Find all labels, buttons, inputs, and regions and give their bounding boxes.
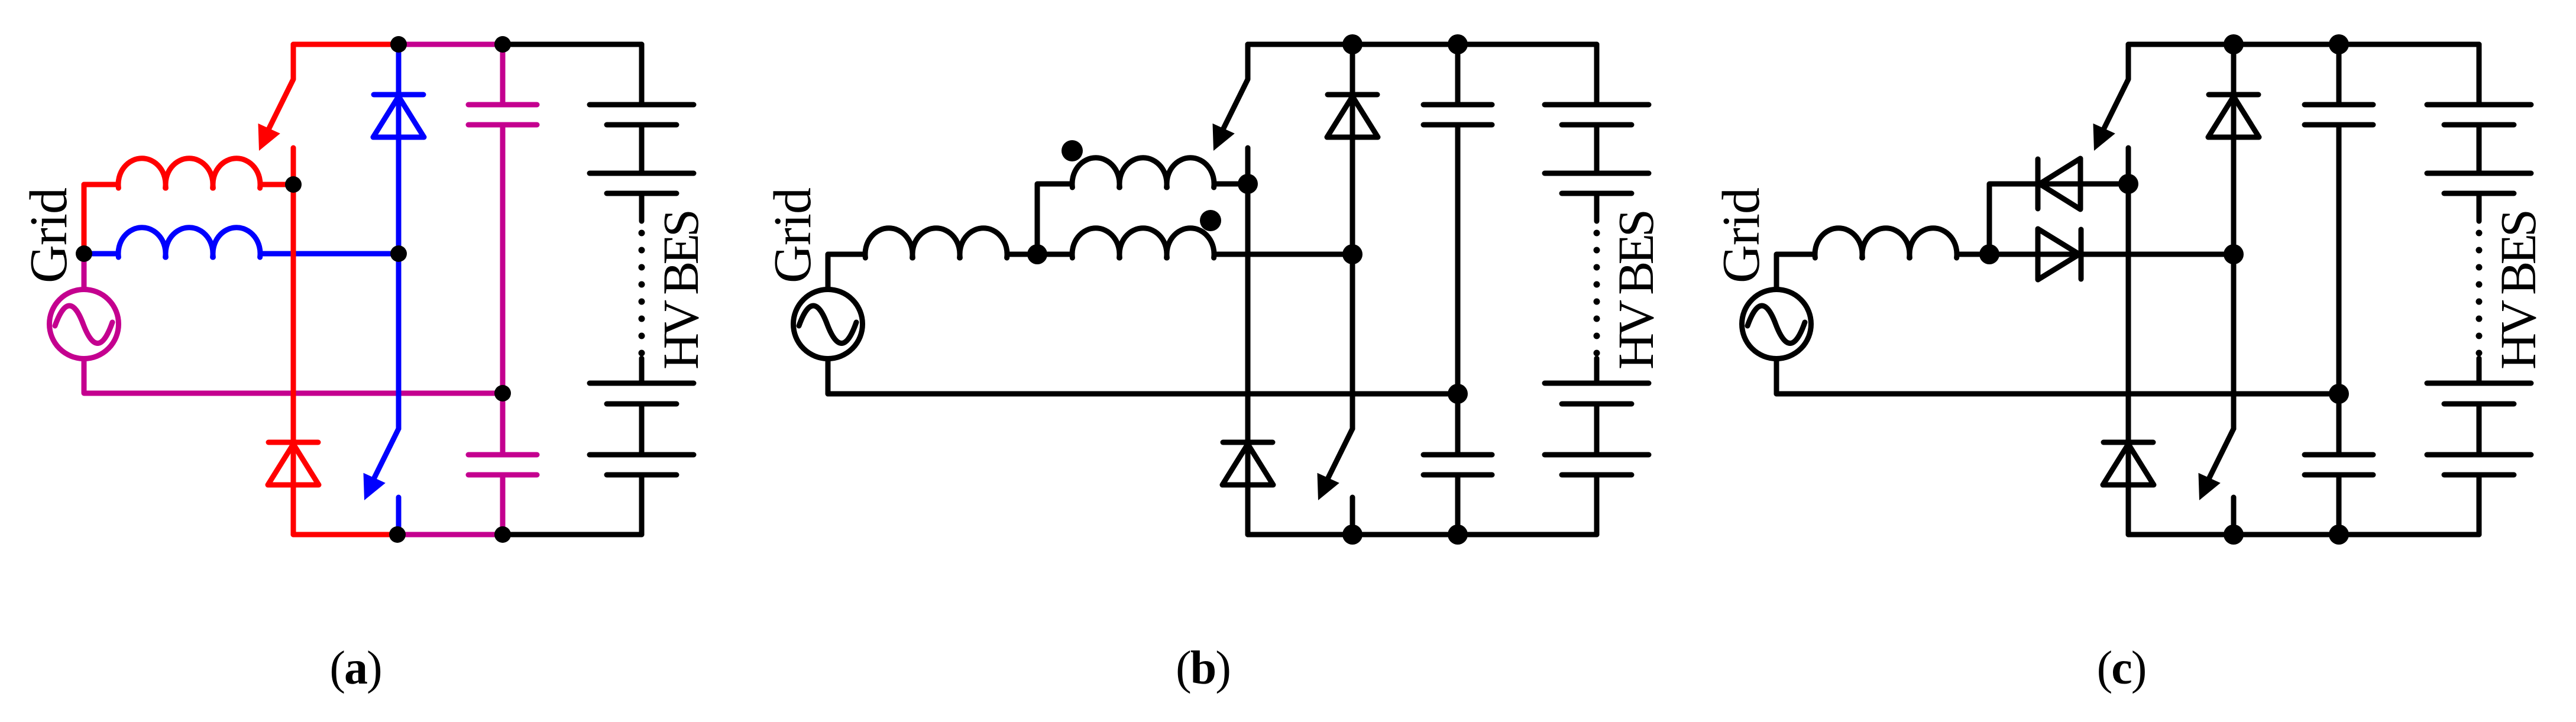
battery dotted continuation (panel a) (639, 230, 645, 357)
wire bottom rail (panel c) (2128, 532, 2479, 538)
wire capacitor column lower (panel c) (2336, 475, 2342, 535)
wire capacitor column upper (panel c) (2336, 44, 2342, 105)
label Grid (panel b) (763, 188, 822, 283)
label (c) (2097, 642, 2146, 694)
node top rail / capacitor column (panel c) (2329, 34, 2349, 54)
svg-text:HV BES: HV BES (652, 212, 709, 370)
capacitor C2 (panel c) (2305, 455, 2373, 475)
battery HV BES upper cells (panel a) (590, 44, 694, 221)
node grid / L1 / L2 junction (76, 245, 92, 262)
svg-text:(c): (c) (2097, 642, 2146, 694)
wire bottom rail black segment (503, 532, 642, 538)
svg-text:HV BES: HV BES (2490, 212, 2546, 370)
svg-text:Grid: Grid (20, 188, 78, 283)
svg-text:(b): (b) (1176, 642, 1230, 694)
node upper winding / switch junction (panel b) (1238, 174, 1258, 194)
AC source Grid (panel b) (794, 290, 863, 359)
wire capacitor column upper (panel b) (1455, 44, 1461, 105)
node bottom rail / switch (panel b) (1342, 524, 1363, 545)
wire magenta from node to source top (82, 254, 87, 288)
battery dotted continuation (panel c) (2476, 230, 2483, 357)
node top rail / blue diode junction (390, 36, 407, 53)
switch S1 top (panel b) (1213, 44, 1248, 184)
wire top rail (panel b) (1248, 42, 1597, 47)
node inductor / diode pair junction (panel c) (1979, 244, 1999, 264)
polarity dot W2 (panel b) (1200, 210, 1221, 231)
label HV BES (panel b) (1607, 212, 1664, 370)
label HV BES (panel c) (2490, 212, 2546, 370)
wire top rail magenta segment (panel a) (399, 42, 503, 47)
switch S1 top (panel c) (2093, 44, 2129, 184)
label (a) (329, 642, 381, 694)
wire switch column vertical (panel c) (2126, 184, 2131, 535)
wire capacitor column middle (panel b) (1455, 125, 1461, 455)
node upper diode / switch junction (panel c) (2118, 174, 2138, 194)
node top rail / capacitor junction (494, 36, 511, 53)
node bottom rail / capacitor junction (494, 526, 511, 543)
wire riser to upper winding (panel b) (1037, 184, 1072, 254)
node top rail / diode column (panel c) (2224, 34, 2244, 54)
diode D3 upper horizontal pointing left (panel c) (2038, 158, 2080, 209)
wire mid rail (panel b) (828, 391, 1458, 397)
wire magenta capacitor column middle (500, 125, 506, 455)
switch S1 (red, upper-left leg of panel a) (258, 44, 294, 184)
wire red diode leg vertical (291, 184, 296, 535)
node W2 / diode column junction (panel b) (1342, 244, 1363, 264)
battery HV BES lower cells (panel c) (2427, 358, 2531, 535)
inductor L2 (blue) with leads (84, 228, 399, 257)
label (b) (1176, 642, 1230, 694)
diode D2 (blue) leg from top node (396, 44, 402, 429)
wire capacitor column middle (panel c) (2336, 125, 2342, 455)
coupled winding W2 lower (panel b) (1037, 228, 1352, 258)
diode D2 (blue) (373, 95, 424, 137)
battery HV BES upper cells (panel c) (2427, 44, 2531, 221)
diode D1 bottom (panel b) (1222, 442, 1273, 485)
inductor L (panel c) (1815, 228, 1989, 258)
svg-text:Grid: Grid (763, 188, 822, 283)
battery HV BES upper cells (panel b) (1545, 44, 1649, 221)
inductor L1 (red) with leads (84, 158, 293, 188)
diode D1 (red) (268, 442, 319, 485)
node inductor / windings junction (panel b) (1027, 244, 1047, 264)
battery HV BES lower cells (panel a) (590, 358, 694, 535)
node mid rail / capacitor column (panel c) (2329, 384, 2349, 404)
capacitor C2 (magenta) (468, 455, 537, 475)
wire capacitor column lower (panel b) (1455, 475, 1461, 535)
node bottom rail / capacitor column (panel b) (1448, 524, 1468, 545)
capacitor C1 (panel c) (2305, 105, 2373, 125)
diode D2 top leg (panel c) (2231, 44, 2237, 429)
wire magenta capacitor column lower (500, 475, 506, 535)
polarity dot W1 (panel b) (1062, 140, 1083, 161)
node lower diode / diode column junction (panel c) (2224, 244, 2244, 264)
label HV BES (panel a) (652, 212, 709, 370)
label Grid (panel a) (20, 188, 78, 283)
coupled winding W1 upper (panel b) (1072, 158, 1248, 187)
svg-text:Grid: Grid (1712, 188, 1771, 283)
wire riser to upper diode (panel c) (1989, 184, 2128, 254)
capacitor C1 (magenta) (468, 105, 537, 125)
capacitor C1 (panel b) (1423, 105, 1492, 125)
wire top rail black segment to battery (panel a) (503, 42, 642, 47)
wire red to bottom rail (293, 532, 397, 538)
wire red left vertical (82, 184, 87, 254)
AC source Grid (magenta) (50, 290, 119, 359)
battery HV BES lower cells (panel b) (1545, 358, 1649, 535)
wire switch column vertical (panel b) (1245, 184, 1251, 535)
switch S2 bottom (panel c) (2199, 429, 2234, 535)
node mid rail / capacitor column (panel b) (1448, 384, 1468, 404)
node top rail / capacitor column (panel b) (1448, 34, 1468, 54)
node blue switch / bottom rail junction (389, 526, 406, 543)
wire source top to inductor (panel b) (828, 254, 865, 394)
node top rail / diode column (panel b) (1342, 34, 1363, 54)
node bottom rail / switch (panel c) (2224, 524, 2244, 545)
diode D1 bottom (panel c) (2103, 442, 2154, 485)
capacitor C2 (panel b) (1423, 455, 1492, 475)
switch S2 (blue, lower leg) (364, 429, 399, 535)
wire source to inductor (panel c) (1776, 254, 1815, 394)
node red switch / inductor L1 junction (285, 176, 302, 193)
node L2 / diode leg junction (390, 245, 407, 262)
diode D2 top leg (panel b) (1350, 44, 1355, 429)
label Grid (panel c) (1712, 188, 1771, 283)
inductor L (panel b) (865, 228, 1037, 258)
wire magenta capacitor column upper (500, 44, 506, 105)
svg-text:HV BES: HV BES (1607, 212, 1664, 370)
wire mid rail (panel c) (1776, 391, 2339, 397)
wire bottom rail (panel b) (1248, 532, 1597, 538)
diode D2 top (panel b) (1327, 95, 1378, 137)
switch S2 bottom (panel b) (1318, 429, 1353, 535)
wire top rail red segment (panel a) (293, 42, 399, 47)
diode D4 lower horizontal pointing right (panel c) (1989, 229, 2234, 280)
node mid rail / capacitor column junction (494, 385, 511, 402)
battery dotted continuation (panel b) (1594, 230, 1600, 357)
diode D2 top (panel c) (2208, 95, 2259, 137)
wire top rail (panel c) (2128, 42, 2479, 47)
wire magenta source bottom to mid rail (84, 360, 503, 393)
AC source Grid (panel c) (1742, 290, 1811, 359)
svg-text:(a): (a) (329, 642, 381, 694)
wire bottom rail magenta segment (397, 532, 503, 538)
node bottom rail / capacitor column (panel c) (2329, 524, 2349, 545)
